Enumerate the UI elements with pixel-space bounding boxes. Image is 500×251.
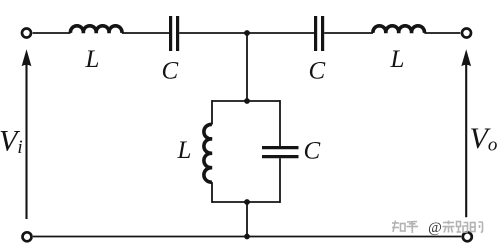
- wire bottom rail: [33, 236, 461, 238]
- wire tank bottom: [212, 201, 280, 203]
- wire tank top: [212, 100, 280, 102]
- wire: [33, 32, 71, 34]
- output terminal top-right: [462, 29, 471, 38]
- Vo arrowhead: [461, 49, 471, 66]
- node bottom-middle junction: [244, 234, 250, 240]
- wire: [122, 32, 169, 34]
- svg-text:C: C: [304, 138, 321, 165]
- wire middle vertical bottom: [246, 202, 248, 237]
- svg-text:L: L: [177, 137, 192, 164]
- svg-text:Vo: Vo: [470, 122, 498, 156]
- wire tank left lower stub: [211, 182, 213, 203]
- svg-text:C: C: [162, 58, 179, 85]
- char 奔: [443, 221, 455, 233]
- inductor L1: [70, 26, 121, 33]
- capacitor C1: [171, 16, 178, 51]
- char 乎: [407, 222, 419, 234]
- inductor L2: [373, 26, 424, 33]
- char 跑: [457, 222, 468, 233]
- wire: [179, 32, 314, 34]
- capacitor C2: [316, 16, 323, 51]
- svg-text:Vi: Vi: [0, 125, 23, 159]
- Vi arrowhead: [22, 49, 32, 66]
- wire: [324, 32, 373, 34]
- svg-text:L: L: [85, 46, 100, 73]
- char 的: [471, 222, 483, 232]
- svg-text:@: @: [428, 220, 442, 236]
- svg-text:C: C: [309, 58, 326, 85]
- watermark 知乎 @奔跑的: [392, 220, 483, 236]
- node tank-top junction: [244, 98, 250, 104]
- output terminal bottom-right: [463, 232, 472, 241]
- inductor L3 (tank, vertical): [204, 124, 212, 182]
- Vi arrow shaft: [25, 62, 27, 219]
- char 知: [392, 221, 405, 233]
- Vo arrow shaft: [465, 62, 467, 217]
- svg-text:L: L: [390, 46, 405, 73]
- input terminal top-left: [22, 29, 31, 38]
- input terminal bottom-left: [23, 232, 32, 241]
- wire middle vertical top: [246, 33, 248, 101]
- capacitor C3 (tank, horizontal plates): [262, 148, 299, 157]
- wire tank left upper stub: [211, 100, 213, 124]
- node top-middle junction: [244, 30, 250, 36]
- wire tank right upper stub: [279, 100, 281, 146]
- wire tank right lower stub: [279, 158, 281, 203]
- node tank-bottom junction: [244, 199, 250, 205]
- wire: [424, 32, 460, 34]
